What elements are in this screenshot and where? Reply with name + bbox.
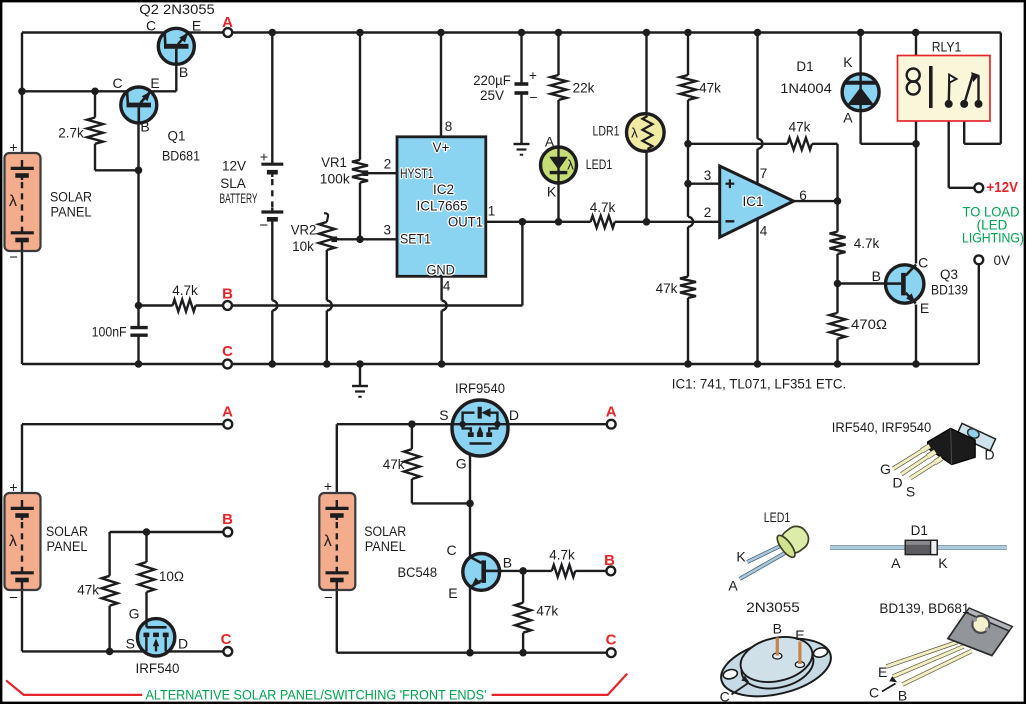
svg-text:E: E — [878, 664, 887, 680]
svg-text:C: C — [869, 685, 879, 701]
svg-text:−: − — [324, 590, 333, 607]
LDR1 body — [627, 114, 665, 152]
junction dots main circuit — [18, 88, 26, 96]
svg-text:8: 8 — [445, 119, 453, 134]
solar panel 2 cells — [11, 507, 34, 510]
svg-text:PANEL: PANEL — [51, 205, 92, 220]
svg-text:E: E — [192, 18, 201, 34]
svg-text:A: A — [222, 404, 233, 421]
wire op-amp pin 7 to top rail with hop over feedback — [756, 33, 758, 139]
svg-text:0V: 0V — [994, 253, 1011, 268]
svg-text:+: + — [529, 68, 537, 83]
resistor 47k (upper divider) — [680, 75, 696, 100]
wire 0V riser — [978, 264, 980, 364]
relay core bar — [929, 66, 933, 108]
svg-text:Q2 2N3055: Q2 2N3055 — [139, 2, 215, 17]
package LED1 physical — [740, 521, 814, 579]
svg-text:22k: 22k — [573, 81, 595, 96]
svg-text:C: C — [222, 343, 233, 360]
svg-text:IRF540, IRF9540: IRF540, IRF9540 — [832, 420, 932, 435]
wire divider 47k branch from top rail — [687, 33, 689, 76]
svg-text:4.7k: 4.7k — [854, 236, 880, 251]
svg-text:D: D — [892, 475, 902, 491]
solar panel 2 body — [5, 493, 41, 590]
capacitor 100nF — [130, 326, 147, 329]
resistor 47k (section3 base pulldown) — [522, 571, 524, 603]
wire D1 to relay coil junction — [861, 143, 916, 145]
package D1 axial diode — [830, 540, 1007, 554]
svg-text:4.7k: 4.7k — [172, 283, 198, 298]
resistor 47k (section3 gate pulldown) — [411, 424, 413, 449]
svg-text:A: A — [545, 134, 555, 150]
svg-text:12V: 12V — [222, 159, 246, 174]
wire VR1 bottom to SET1 line — [359, 183, 361, 240]
svg-text:SOLAR: SOLAR — [46, 524, 88, 539]
svg-text:BC548: BC548 — [398, 565, 438, 580]
wire relay contact 1 to +12V terminal — [948, 104, 950, 188]
svg-text:C: C — [720, 689, 730, 704]
wire VR1 branch from top rail — [359, 33, 361, 160]
wire battery branch — [271, 33, 273, 165]
svg-text:D1: D1 — [796, 59, 813, 74]
+12V terminal — [974, 183, 983, 192]
svg-text:B: B — [872, 268, 881, 284]
svg-text:C: C — [606, 632, 617, 649]
ground (C rail) — [352, 385, 368, 387]
svg-text:BD681: BD681 — [162, 149, 200, 164]
wire LDR1 bottom to pin2 line — [645, 150, 647, 222]
svg-text:B: B — [503, 555, 512, 571]
wire SET1 line — [339, 238, 397, 240]
svg-text:RLY1: RLY1 — [932, 40, 962, 55]
wire 22k/LED1 branch — [557, 33, 559, 76]
node C terminal — [223, 360, 232, 369]
svg-text:G: G — [456, 456, 467, 472]
op-amp IC1 body — [720, 166, 794, 237]
wire relay contact 2 to right edge rail — [963, 104, 965, 144]
diode D1 1N4004 body — [842, 74, 879, 111]
svg-text:B: B — [179, 64, 188, 80]
svg-text:VR2: VR2 — [291, 223, 317, 238]
solar panel 1 body — [5, 153, 41, 251]
MOSFET IRF9540 internals — [453, 423, 508, 425]
svg-text:25V: 25V — [480, 88, 504, 103]
svg-text:λ: λ — [9, 193, 17, 210]
svg-text:B: B — [222, 286, 233, 303]
svg-text:K: K — [938, 555, 948, 571]
svg-text:IC2: IC2 — [433, 182, 454, 197]
svg-text:470Ω: 470Ω — [851, 317, 887, 332]
capacitor 220uF 25V — [515, 82, 529, 86]
junction dots section2 — [143, 528, 151, 536]
svg-text:A: A — [222, 14, 233, 31]
svg-text:IRF9540: IRF9540 — [455, 381, 505, 396]
svg-text:Q1: Q1 — [167, 129, 185, 144]
svg-text:A: A — [728, 578, 738, 594]
svg-text:B: B — [604, 552, 615, 569]
svg-text:47k: 47k — [383, 457, 405, 472]
svg-text:K: K — [736, 548, 746, 564]
node A terminal section3 — [607, 420, 616, 429]
potentiometer VR1 100k — [352, 160, 368, 183]
battery 12V SLA cells — [261, 163, 283, 166]
svg-text:47k: 47k — [789, 120, 811, 135]
svg-text:OUT1: OUT1 — [448, 215, 483, 230]
resistor 47k (lower divider) — [680, 277, 696, 298]
ground (220uF) — [514, 143, 530, 145]
transistor Q1 BD681 body — [121, 87, 157, 123]
svg-text:47k: 47k — [656, 281, 678, 296]
svg-text:C: C — [112, 75, 122, 91]
wire Q3 base — [838, 282, 887, 284]
wire D1 branch — [859, 33, 861, 75]
MOSFET IRF540 body — [137, 619, 174, 656]
svg-text:47k: 47k — [77, 583, 99, 598]
node A terminal section2 — [223, 420, 232, 429]
node A terminal — [223, 28, 232, 37]
svg-text:BD139: BD139 — [931, 283, 968, 298]
svg-text:LED1: LED1 — [764, 510, 791, 525]
wire OUT1 / pin 2 line — [486, 221, 591, 223]
relay coil — [907, 69, 920, 82]
svg-text:D: D — [178, 636, 188, 652]
diode D1 internals — [859, 75, 861, 110]
wire LED1 cathode to OUT1 line — [557, 182, 559, 222]
svg-text:3: 3 — [384, 223, 392, 238]
svg-text:ICL7665: ICL7665 — [416, 199, 467, 214]
wire IC2 pin 8 to top rail — [440, 33, 442, 137]
svg-text:1: 1 — [488, 204, 496, 219]
svg-text:47k: 47k — [536, 603, 558, 618]
svg-text:E: E — [150, 75, 159, 91]
wire section3 A rail — [337, 423, 607, 425]
wire B rail left with resistor 4.7k — [139, 304, 173, 306]
wire op-amp pin 4 to C rail — [756, 219, 758, 364]
wire second rail to Q1 collector — [22, 90, 127, 92]
svg-text:SLA: SLA — [220, 176, 246, 191]
IC2 ICL7665 body — [397, 137, 486, 276]
svg-text:2: 2 — [384, 157, 392, 172]
resistor 47k (section2) — [108, 532, 110, 576]
svg-text:4: 4 — [760, 224, 768, 239]
wire VR2 bottom to C rail with hop over B rail — [326, 250, 328, 301]
svg-text:2: 2 — [704, 205, 712, 220]
wire IRF9540 gate down to BC548 collector — [469, 444, 471, 558]
svg-text:BD139, BD681: BD139, BD681 — [879, 601, 969, 616]
package TO-220 IRF540/IRF9540 — [893, 423, 995, 478]
svg-text:E: E — [920, 300, 929, 316]
svg-text:S: S — [126, 636, 135, 652]
svg-text:4.7k: 4.7k — [590, 200, 616, 215]
wire top rail A — [22, 31, 1001, 33]
transistor BC548 internals — [481, 560, 486, 583]
node C terminal section2 — [223, 647, 232, 656]
svg-text:PANEL: PANEL — [365, 539, 406, 554]
wire BC548 emitter down to bottom rail — [469, 586, 471, 653]
svg-text:G: G — [129, 606, 140, 622]
wire C rail ground stub — [359, 364, 361, 386]
wire C rail (ground rail) — [22, 363, 979, 365]
svg-text:V+: V+ — [433, 140, 450, 155]
svg-text:ALTERNATIVE SOLAR PANEL/SWITCH: ALTERNATIVE SOLAR PANEL/SWITCHING 'FRONT… — [146, 687, 487, 702]
svg-text:220µF: 220µF — [473, 73, 511, 88]
solar panel 3 cells — [326, 507, 349, 510]
wire right edge vertical — [1000, 33, 1002, 144]
svg-text:+12V: +12V — [987, 180, 1019, 196]
wire section2 bottom rail — [22, 650, 223, 652]
svg-text:10Ω: 10Ω — [159, 569, 184, 584]
wire Q1 emitter to Q2 base — [151, 90, 177, 92]
wire section2 panel - to bottom — [21, 590, 23, 652]
svg-text:6: 6 — [799, 188, 807, 203]
svg-text:2N3055: 2N3055 — [746, 600, 800, 615]
transistor BC548 body — [463, 554, 500, 591]
svg-text:1N4004: 1N4004 — [780, 81, 832, 96]
resistor 4.7k (OUT1 to pin2) — [591, 216, 615, 228]
MOSFET IRF9540 body — [452, 400, 508, 456]
svg-text:E: E — [448, 585, 457, 601]
svg-text:2.7k: 2.7k — [58, 126, 84, 141]
svg-text:4.7k: 4.7k — [549, 547, 575, 562]
svg-text:SOLAR: SOLAR — [50, 190, 92, 205]
wire 2.7k bottom to Q1 base node — [94, 144, 96, 171]
svg-text:C: C — [918, 255, 928, 271]
svg-text:λ: λ — [9, 533, 17, 550]
svg-text:S: S — [439, 407, 448, 423]
svg-text:E: E — [795, 627, 804, 643]
wire BC548 base line with 4.7k — [500, 570, 552, 572]
svg-text:B: B — [222, 511, 233, 528]
node B terminal — [223, 301, 232, 310]
svg-text:3: 3 — [704, 168, 712, 183]
solar panel 1 cells — [11, 167, 34, 170]
wire solar panel - to C rail — [21, 251, 23, 364]
wire relay coil branch — [915, 33, 917, 73]
package BD139/BD681 TO-126 — [887, 608, 1013, 685]
0V terminal — [974, 255, 983, 264]
node C terminal section3 — [607, 648, 616, 657]
op-amp IC1 +/- marks — [726, 183, 735, 185]
resistor 47k (feedback) — [788, 138, 813, 150]
junction dots section3 — [408, 420, 416, 428]
LED1 body — [541, 147, 577, 183]
svg-text:B: B — [140, 119, 149, 135]
solar panel 3 body — [319, 493, 355, 590]
svg-text:+: + — [9, 479, 17, 495]
svg-text:D: D — [509, 407, 519, 423]
svg-text:+: + — [260, 149, 268, 165]
transistor Q2 2N3055 body — [158, 28, 194, 64]
wire section3 bottom rail — [337, 652, 607, 654]
svg-text:7: 7 — [760, 166, 768, 181]
wire IC2 pin 4 GND to C rail with hop over B rail — [440, 276, 442, 300]
svg-text:D: D — [984, 447, 994, 463]
svg-text:A: A — [843, 110, 853, 126]
wire 2.7k branch top — [94, 91, 96, 117]
transistor Q3 internals — [901, 273, 906, 296]
svg-text:−: − — [259, 217, 268, 234]
svg-text:λ: λ — [324, 533, 332, 550]
wire LDR1 branch — [645, 33, 647, 116]
svg-text:−: − — [9, 590, 18, 607]
svg-text:+: + — [324, 478, 332, 494]
wire coil junction down to Q3 collector — [915, 144, 917, 264]
resistor 2.7k — [87, 118, 103, 144]
LDR1 internals — [643, 116, 653, 149]
svg-text:C: C — [221, 631, 232, 648]
svg-text:100k: 100k — [320, 172, 350, 187]
wire section2 B rail — [110, 531, 224, 533]
resistor 4.7k (output to Q3 base) — [836, 201, 838, 232]
wire section3 panel - to bottom rail — [336, 590, 338, 653]
svg-text:PANEL: PANEL — [47, 539, 88, 554]
svg-text:A: A — [891, 555, 901, 571]
svg-text:−: − — [529, 89, 537, 105]
node B terminal section3 — [606, 567, 615, 576]
LED1 internals — [557, 148, 559, 182]
svg-text:LDR1: LDR1 — [593, 124, 620, 139]
svg-text:S: S — [906, 484, 915, 500]
svg-text:λ: λ — [567, 158, 574, 173]
resistor 10ohm — [145, 532, 147, 562]
svg-text:SET1: SET1 — [400, 232, 431, 247]
transistor Q1 internals — [127, 103, 152, 108]
svg-text:4: 4 — [443, 279, 451, 294]
svg-text:B: B — [898, 688, 907, 704]
svg-text:A: A — [606, 404, 617, 421]
svg-text:K: K — [547, 184, 557, 200]
svg-text:+: + — [9, 139, 17, 155]
resistor 4.7k (section3) — [552, 565, 576, 577]
svg-text:HYST1: HYST1 — [400, 166, 434, 181]
package 2N3055 TO-3 — [715, 629, 836, 704]
resistor 470ohm — [830, 313, 846, 339]
svg-text:IC1: 741, TL071, LF351 ETC.: IC1: 741, TL071, LF351 ETC. — [672, 376, 847, 391]
relay RLY1 box — [898, 56, 991, 122]
svg-text:VR1: VR1 — [321, 155, 347, 170]
svg-text:IC1: IC1 — [742, 194, 763, 209]
svg-text:GND: GND — [426, 262, 455, 277]
svg-text:LIGHTING): LIGHTING) — [962, 231, 1024, 246]
svg-text:λ: λ — [631, 126, 638, 141]
resistor 22k — [551, 75, 567, 100]
wire battery - down to C rail with hop over B rail — [271, 219, 273, 300]
wire 220uF branch — [520, 33, 522, 83]
wire op-amp output — [794, 200, 838, 202]
svg-text:K: K — [843, 54, 853, 70]
wire left vertical from top rail to solar panel + — [21, 33, 23, 154]
svg-text:C: C — [446, 542, 456, 558]
svg-text:LED1: LED1 — [586, 157, 613, 172]
bracket alternative front ends — [6, 681, 142, 695]
svg-text:G: G — [880, 461, 891, 477]
svg-text:SOLAR: SOLAR — [364, 524, 406, 539]
relay contact 1 (to +12V) — [948, 79, 951, 104]
wire Q3 emitter to C rail — [915, 305, 917, 365]
MOSFET IRF540 internals — [145, 622, 147, 627]
svg-text:47k: 47k — [699, 81, 721, 96]
svg-text:−: − — [9, 249, 18, 266]
resistor 4.7k (B rail) — [173, 300, 196, 312]
relay contact 2 (changeover) — [964, 75, 973, 104]
svg-text:IRF540: IRF540 — [136, 661, 180, 676]
svg-text:10k: 10k — [292, 239, 314, 254]
transistor Q2 internals — [164, 44, 189, 49]
svg-text:Q3: Q3 — [940, 267, 958, 282]
wire divider vertical with hop over pin2 line — [687, 100, 689, 144]
svg-text:B: B — [773, 621, 782, 637]
node B terminal section2 — [223, 528, 232, 537]
svg-text:100nF: 100nF — [92, 324, 127, 339]
wire op-amp pin 3 input — [688, 182, 720, 184]
svg-text:C: C — [146, 18, 156, 34]
wire B rail riser to OUT1 — [521, 222, 523, 306]
wire feedback line — [688, 143, 788, 145]
wire Q1 base vertical down to C rail — [137, 123, 139, 328]
wire IRF540 gate — [145, 592, 147, 627]
wire section2 A rail — [22, 423, 223, 425]
svg-text:BATTERY: BATTERY — [220, 191, 258, 206]
potentiometer VR2 10k — [324, 213, 328, 222]
transistor Q3 BD139 body — [886, 265, 924, 303]
svg-text:D1: D1 — [911, 523, 928, 538]
